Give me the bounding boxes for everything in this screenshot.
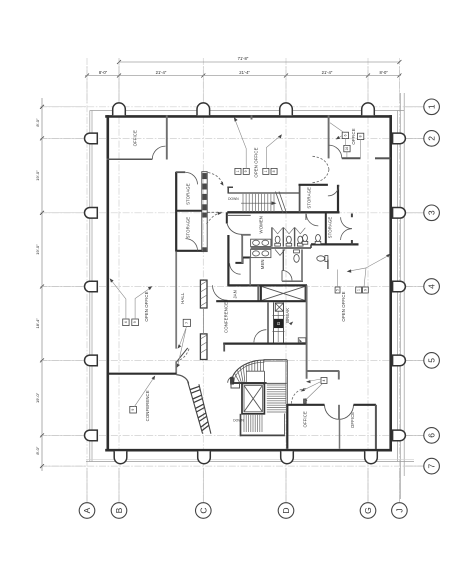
svg-text:6: 6 [343,134,347,136]
NW office door swing [152,146,165,159]
wall below conference [223,344,225,352]
corridor south wall under stair [227,211,339,213]
men stall partitions [275,249,302,280]
women east door [306,213,318,226]
SW conference curved wall [176,375,188,384]
bottom wall columns at B C D G [114,451,377,463]
svg-text:A: A [82,507,92,513]
open office keynote pair A [234,117,250,174]
women entry inner wall [241,235,243,263]
conference door swing [254,330,267,343]
women inner north wall [227,214,251,216]
svg-text:D: D [281,507,291,513]
south hallway north wall [307,370,340,372]
men door leaf stub [281,271,283,282]
svg-text:OFFICE: OFFICE [133,130,138,146]
column grid lines A B C D G J [87,58,399,506]
svg-text:STORAGE: STORAGE [328,217,333,239]
south stair landing walls [240,414,285,437]
svg-text:71′-8″: 71′-8″ [238,56,249,61]
svg-text:4: 4 [427,284,437,289]
storage lower door swing [186,239,198,251]
svg-text:MEN: MEN [260,259,265,269]
toilet vestibule inner wall [249,258,251,286]
svg-text:16: 16 [345,147,349,151]
svg-text:21′-4″: 21′-4″ [239,70,250,75]
NE storage B south wall [311,244,359,248]
svg-text:OPEN OFFICE: OPEN OFFICE [144,291,149,321]
NE dashed double door lower [313,170,330,183]
svg-text:OFFICE: OFFICE [303,411,308,427]
svg-text:8: 8 [359,135,363,137]
JAN door swing [213,285,228,300]
stair top landing wall [264,360,288,362]
south offices door arch [325,405,354,420]
north stair treads [243,194,274,212]
storage block west wall [175,172,177,252]
NW office east partition wall [166,116,168,160]
women toilets [275,236,303,246]
NE storage B east wall stubs [351,214,353,245]
north stair west wall stub [227,187,233,193]
south offices north wall west [287,404,324,406]
cased opening swing lower [207,212,222,224]
hall casework block upper [200,280,207,308]
svg-text:CONFERENCE: CONFERENCE [224,302,229,333]
svg-text:9: 9 [131,409,135,411]
svg-text:7: 7 [185,322,189,324]
toilet block south wall [227,284,307,286]
svg-text:21′-4″: 21′-4″ [156,70,167,75]
svg-text:BREAK: BREAK [285,308,290,323]
south exterior wall [105,449,392,452]
svg-text:WOMEN: WOMEN [259,216,264,233]
men south door swing [282,270,292,280]
north exterior wall [105,115,392,118]
svg-text:G: G [276,321,281,325]
storage lower south wall [176,250,202,252]
svg-text:9: 9 [363,289,367,291]
svg-text:9: 9 [133,321,137,323]
svg-text:8: 8 [272,170,276,172]
women entry stub wall [241,234,251,236]
svg-text:DOWN: DOWN [228,197,239,201]
svg-text:8′-0″: 8′-0″ [380,70,389,75]
top overall dimension 71'-8" [117,56,401,103]
hall west wall upper [175,252,177,349]
NE dashed double door upper [313,156,330,169]
south hallway wall stub [338,371,340,380]
svg-text:9: 9 [244,170,248,172]
hall door leaf [177,348,188,362]
women lavatory counter [251,239,271,246]
storage upper door swing [186,172,198,184]
svg-text:8′-0″: 8′-0″ [35,446,40,455]
NE storage A door swing [328,185,339,196]
north stair break line [276,192,287,214]
drinking fountain [298,338,306,343]
svg-text:C: C [198,507,208,513]
svg-text:1: 1 [264,170,268,172]
svg-text:19′-0″: 19′-0″ [35,392,40,403]
svg-text:7: 7 [427,463,437,468]
west open office keynote tags [110,278,153,325]
NE office door swing [329,145,342,158]
NE storage A east wall [337,185,339,213]
north stair rail [228,192,300,194]
svg-text:4: 4 [322,379,326,381]
restroom dividing wall [251,247,311,249]
stair run top edge [265,382,287,384]
NE storage A north wall [299,184,328,186]
east center corridor wall [306,285,308,378]
SW conference keynote tag [130,376,155,414]
stair east wall upper [286,360,288,404]
toilet vestibule west wall [227,235,229,285]
row grid bubbles 1-7 [405,99,439,474]
hall casework block lower [200,334,207,360]
svg-text:3: 3 [427,210,437,215]
ramp with hatching [188,382,211,434]
south office keynote tag [301,378,327,403]
svg-text:21′-4″: 21′-4″ [322,70,333,75]
svg-text:OFFICE: OFFICE [350,412,355,428]
NE storage B double door upper [341,217,352,228]
JAN east wall [257,285,259,301]
break and conference south wall [223,343,306,345]
cased opening dashes [208,211,224,213]
svg-text:STORAGE: STORAGE [186,183,191,205]
cased opening swing upper [208,173,224,186]
toilet vestibule west wall upper [226,212,228,223]
south offices divider wall [339,419,341,449]
men partial south wall [282,280,303,282]
svg-text:JAN: JAN [233,290,238,298]
casework wall on grid C [202,172,207,252]
svg-text:OPEN OFFICE: OPEN OFFICE [254,147,259,177]
svg-text:4: 4 [124,321,128,323]
break room west wall [267,302,269,342]
svg-text:G: G [363,507,373,514]
south office door hinge block [304,399,307,404]
NE office keynote tags [330,123,364,158]
svg-text:19′-0″: 19′-0″ [35,170,40,181]
men lavatory counter [251,249,271,257]
svg-text:6: 6 [427,433,437,438]
left dimension line with segments [35,98,86,471]
svg-text:J: J [394,508,404,512]
svg-text:DOWN: DOWN [233,419,244,423]
women stall partitions and door swings [272,227,305,246]
vestibule door swing [230,263,241,274]
women toilets east section [302,235,321,245]
break room kitchen counter [273,302,285,343]
svg-text:1: 1 [427,104,437,109]
east open office keynote tags [335,254,390,293]
hall keynote tag [177,319,191,368]
women entry door swing [227,224,241,235]
hall door swing dashed [177,349,189,362]
storage upper door header [176,171,185,173]
storage divider wall [176,210,202,212]
NE office south wall west segment [342,157,361,159]
svg-text:CONFERENCE: CONFERENCE [145,390,150,421]
hall casework connector [203,308,205,334]
NE office west wall [328,116,330,159]
svg-text:STORAGE: STORAGE [307,187,312,209]
break room leader arrow [289,322,293,326]
svg-text:5: 5 [427,358,437,363]
toilet vestibule south wall with step [235,258,250,263]
south stair bottom run treads [244,415,262,432]
svg-text:OPEN OFFICE: OPEN OFFICE [341,291,346,321]
south offices north wall east [354,404,376,406]
men toilet east section [317,256,328,269]
svg-text:1: 1 [357,289,361,291]
east exterior wall [389,115,392,451]
perimeter window-wall thin lines [86,93,414,499]
svg-text:18′-4″: 18′-4″ [35,318,40,329]
open office keynote pair B [263,134,282,174]
wall below elevator and jan [216,300,307,302]
SW conference north wall [107,373,177,375]
svg-text:STORAGE: STORAGE [186,217,191,239]
svg-text:19′-0″: 19′-0″ [35,244,40,255]
south stair block east wall [286,404,288,449]
partition stub at D [251,116,253,120]
svg-text:2: 2 [427,136,437,141]
west wall columns rows 2-6 [85,133,98,441]
hall west wall lower [175,361,177,374]
men toilet in stall [294,250,300,262]
svg-text:5: 5 [336,289,340,291]
svg-text:8′-0″: 8′-0″ [35,118,40,127]
NE office south wall east segment [375,157,391,159]
svg-text:OFFICE: OFFICE [351,128,356,144]
NW office south wall [107,158,153,160]
north stair direction arrow [241,201,277,205]
top segment dimensions [85,66,401,103]
svg-text:B: B [114,507,124,513]
fan stair base wall [231,382,267,384]
svg-text:8′-0″: 8′-0″ [99,70,108,75]
south elevator shaft [242,384,264,414]
fan stair west tip wall [231,378,234,384]
NE storage B double door lower [341,229,352,240]
south stair east run treads [267,385,286,412]
west exterior wall [107,115,110,451]
south office east wall [375,405,377,449]
fan stair [228,360,265,383]
north stair east wall [299,185,301,213]
svg-text:HALL: HALL [180,292,185,304]
top wall columns at B C D G [113,103,375,115]
column grid bubbles A B C D G J [79,468,407,518]
north elevator shaft [261,285,306,301]
row grid lines 1-7 [40,107,424,466]
svg-text:1: 1 [236,170,240,172]
east wall columns rows 2-6 [393,133,406,441]
NE storage B west wall [325,214,327,245]
south office dashed door [292,389,307,404]
fan stair west step [231,383,240,388]
south offices door leaf [338,405,340,420]
